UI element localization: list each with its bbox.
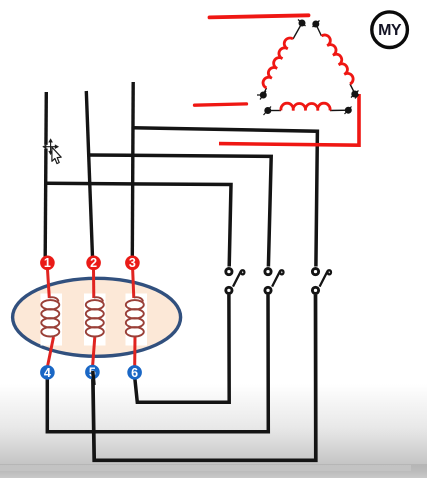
winding coil W2 — [86, 297, 104, 336]
mouse arrow pointer — [52, 147, 61, 163]
wire L3 supply vertical to terminal 3 — [131, 82, 135, 257]
svg-text:1: 1 — [44, 256, 51, 270]
delta node top-right — [313, 21, 320, 28]
switch S3 — [312, 269, 331, 294]
winding coil W3 — [126, 297, 144, 336]
wire terminal 6 to switch S1 bottom — [135, 295, 229, 403]
red lead W2 to terminal 5 — [93, 337, 95, 366]
delta coil left (winding U) — [263, 38, 293, 88]
link top-right vertex to right coil — [316, 24, 322, 36]
red annotation wire from delta vertex down-left — [219, 94, 359, 145]
slide edge highlight strip — [0, 465, 411, 471]
motor stator ellipse — [13, 278, 181, 356]
delta node bottom coil right end — [345, 107, 352, 115]
link left coil to bottom-left vertex — [263, 88, 266, 95]
red lead terminal2 to W2 — [92, 268, 95, 298]
winding W2 background — [84, 294, 106, 346]
winding coil W1 — [41, 297, 59, 336]
terminal 2 — [86, 255, 101, 270]
delta coil bottom (winding W) — [281, 103, 330, 110]
switch S2 — [265, 269, 284, 294]
wire from L3 to switch S3 top — [133, 128, 318, 267]
logo MY — [372, 12, 408, 48]
terminal 3 — [125, 255, 140, 270]
link bottom coil to bottom-right end — [330, 109, 348, 111]
wire from L2 to switch S2 top — [89, 155, 272, 267]
terminal 5 — [85, 365, 100, 380]
link bottom-left end to bottom coil — [268, 110, 282, 112]
delta node bottom-right vertex — [351, 91, 359, 99]
delta coil right (winding V) — [322, 35, 354, 84]
delta node bottom-left vertex — [257, 91, 266, 100]
mouse move cursor — [43, 139, 59, 155]
delta node bottom coil left end — [264, 107, 272, 116]
red annotation line left (phase lead) — [195, 104, 247, 105]
svg-text:3: 3 — [129, 256, 136, 270]
terminal 4 — [40, 365, 55, 380]
svg-text:MY: MY — [378, 22, 402, 39]
svg-text:6: 6 — [131, 366, 138, 380]
link right coil to bottom-right vertex — [350, 84, 355, 94]
winding W3 background — [126, 294, 148, 346]
red lead W1 to terminal 4 — [48, 337, 54, 366]
red lead terminal1 to W1 — [47, 268, 49, 298]
switch S1 — [226, 269, 245, 294]
wire L1 supply vertical to terminal 1 — [45, 92, 46, 257]
wire L2 supply vertical to terminal 2 — [86, 91, 92, 257]
link top-left vertex to left coil — [293, 23, 302, 39]
red lead terminal3 to W3 — [133, 268, 134, 298]
svg-text:4: 4 — [44, 366, 51, 380]
red annotation line top (phase lead) — [210, 15, 309, 17]
wire terminal 5 to switch S3 bottom — [93, 295, 316, 461]
terminal 1 — [40, 255, 55, 270]
wire terminal 4 to switch S2 bottom — [47, 295, 268, 432]
wire from L1 to switch S1 top — [46, 183, 231, 266]
terminal 6 — [127, 365, 142, 380]
svg-text:2: 2 — [90, 256, 97, 270]
red lead W3 to terminal 6 — [133, 337, 136, 366]
delta winding frame: thin links — [263, 23, 355, 111]
delta node top-left — [298, 20, 306, 27]
winding W1 background — [41, 294, 63, 346]
wire over terminal 5 — [93, 371, 94, 385]
